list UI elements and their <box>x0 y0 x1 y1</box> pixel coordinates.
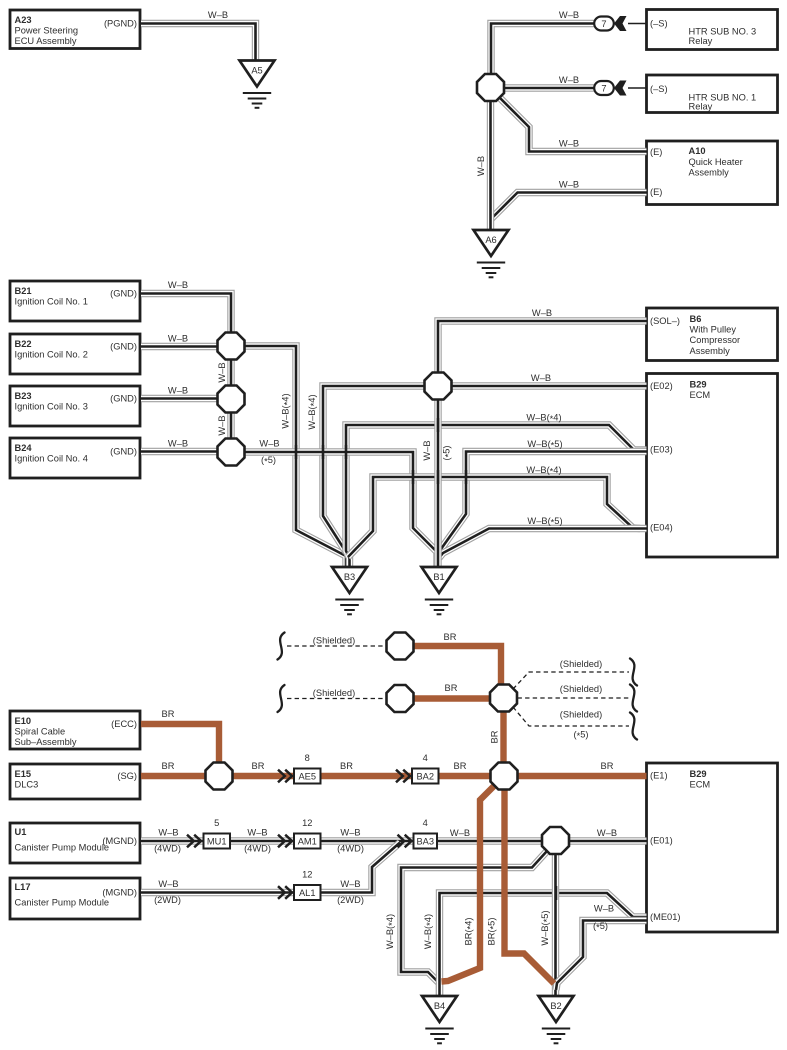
svg-text:AE5: AE5 <box>298 772 316 782</box>
connector 7 to HTR SUB NO.1 <box>594 81 646 96</box>
svg-text:8: 8 <box>305 753 310 763</box>
svg-text:(E01): (E01) <box>650 836 673 846</box>
svg-text:(MGND): (MGND) <box>102 888 137 898</box>
wire W-B from A10 (E) lower to ground A6 stem <box>491 180 647 220</box>
wire BR from connector BA2 to junction H <box>439 761 493 776</box>
svg-text:B3: B3 <box>344 572 355 582</box>
component L17 Canister Pump Module <box>10 878 140 919</box>
svg-text:W–B: W–B <box>247 828 267 838</box>
wire W-B(*4) from junction F to ground B4 <box>385 851 547 997</box>
svg-text:W–B: W–B <box>531 373 551 383</box>
component HTR SUB NO.3 Relay <box>647 10 778 50</box>
wire W-B from U1 (MGND) to connector MU1/AM1/BA3 <box>141 828 414 854</box>
component B6 With Pulley Compressor Assembly <box>647 308 778 361</box>
svg-text:(E02): (E02) <box>650 381 673 391</box>
ground B2 <box>539 996 574 1043</box>
svg-text:(E): (E) <box>650 147 662 157</box>
component B24 Ignition Coil No.4 <box>10 438 140 478</box>
svg-text:W–B: W–B <box>168 386 188 396</box>
component B21 Ignition Coil No.1 <box>10 281 140 321</box>
svg-text:W–B: W–B <box>594 904 614 914</box>
wire W-B from junction A to HTR SUB NO.3 relay <box>491 10 595 75</box>
svg-text:L17: L17 <box>15 882 31 892</box>
connector AE5 pin 8 <box>294 753 321 784</box>
svg-text:BR: BR <box>162 709 175 719</box>
wire W-B from junction E to ECM (E02) <box>450 373 647 386</box>
wire crossing continuity patches <box>296 418 556 900</box>
junction octagon H (BR) <box>491 763 518 790</box>
wire BR from junction G to connector AE5 <box>229 761 294 776</box>
wire BR from connector AE5 to connector BA2 <box>321 761 413 776</box>
ground A6 <box>474 230 509 277</box>
component U1 Canister Pump Module <box>10 823 140 863</box>
svg-text:4: 4 <box>423 753 428 763</box>
svg-text:(SG): (SG) <box>117 771 137 781</box>
svg-text:(GND): (GND) <box>110 394 137 404</box>
svg-text:MU1: MU1 <box>207 837 227 847</box>
connector chevrons BA3 <box>398 835 412 848</box>
junction octagon B <box>218 333 245 360</box>
svg-text:AM1: AM1 <box>298 837 317 847</box>
wire W-B(*4) branch to ECM (E04) and ground B3 <box>348 465 640 557</box>
connector chevrons BA2 <box>396 770 410 783</box>
svg-text:W–B(*​5): W–B(*​5) <box>527 516 562 528</box>
svg-text:(*​5): (*​5) <box>261 455 276 467</box>
svg-text:W–B: W–B <box>559 180 579 190</box>
svg-text:E10: E10 <box>15 716 32 726</box>
svg-text:Spiral Cable: Spiral Cable <box>15 727 66 737</box>
svg-text:A10: A10 <box>689 146 706 156</box>
svg-text:B29: B29 <box>690 380 707 390</box>
svg-text:W–B: W–B <box>217 415 227 435</box>
svg-text:W–B: W–B <box>422 440 432 460</box>
wire W-B(*4) branch to ECM (E03) and ground B3 <box>346 413 647 569</box>
component B29 ECM (middle) <box>647 374 778 558</box>
svg-text:B1: B1 <box>433 572 444 582</box>
svg-text:ECM: ECM <box>690 390 711 400</box>
junction octagon G (E10/E15) <box>206 763 233 790</box>
svg-text:ECU Assembly: ECU Assembly <box>15 36 77 46</box>
svg-text:(E1): (E1) <box>650 771 668 781</box>
svg-text:W–B: W–B <box>559 75 579 85</box>
shielded wire left row 1 <box>287 636 388 647</box>
component HTR SUB NO.1 Relay <box>647 75 778 113</box>
svg-text:W–B: W–B <box>208 10 228 20</box>
svg-text:W–B: W–B <box>532 308 552 318</box>
wire BR(*5) from junction H to ground B2 <box>487 788 554 984</box>
component A23 Power Steering ECU Assembly <box>10 10 140 49</box>
svg-text:W–B(*​4): W–B(*​4) <box>307 394 319 429</box>
wire W-B from connector BA3 to junction F <box>437 828 544 841</box>
svg-text:Ignition Coil No. 4: Ignition Coil No. 4 <box>15 454 88 464</box>
connector AL1 pin 12 <box>294 870 321 901</box>
svg-text:BR: BR <box>444 632 457 642</box>
wire BR from junction H to ECM (E1) <box>516 761 647 776</box>
svg-text:(GND): (GND) <box>110 342 137 352</box>
junction octagon I (shield merge) <box>490 685 517 712</box>
shield pigtail right row C <box>630 713 637 740</box>
wire W-B(*4) from junction E to ground B3 <box>307 386 427 552</box>
svg-text:Relay: Relay <box>689 102 713 112</box>
svg-text:BR: BR <box>454 761 467 771</box>
connector BA2 pin 4 <box>412 753 439 784</box>
wire W-B from B22 (GND) to junction B <box>141 334 220 347</box>
svg-text:12: 12 <box>302 870 312 880</box>
wire W-B from junction A down to ground A6 <box>476 95 490 231</box>
svg-text:7: 7 <box>601 83 606 93</box>
svg-text:B2: B2 <box>550 1001 561 1011</box>
svg-text:(ME01): (ME01) <box>650 912 680 922</box>
svg-text:W–B: W–B <box>158 879 178 889</box>
shielded wire right row B <box>518 684 630 698</box>
svg-text:(*​5): (*​5) <box>442 445 454 460</box>
wire W-B junction C to junction D <box>217 408 231 443</box>
wire BR shielded row 2 to junction I <box>413 683 492 699</box>
svg-text:(*​5): (*​5) <box>573 730 588 742</box>
shield pigtail right row A <box>630 659 637 686</box>
svg-text:AL1: AL1 <box>299 888 316 898</box>
wire BR(*4) from junction H to ground B4 <box>442 785 496 982</box>
shielded wire right row A <box>513 659 629 689</box>
svg-text:(Shielded): (Shielded) <box>560 710 602 720</box>
svg-text:W–B: W–B <box>450 828 470 838</box>
svg-text:Ignition Coil No. 1: Ignition Coil No. 1 <box>15 297 88 307</box>
svg-text:HTR SUB NO. 3: HTR SUB NO. 3 <box>689 27 757 37</box>
wire BR shielded row 1 to junction I <box>413 632 501 687</box>
svg-text:(4WD): (4WD) <box>337 844 364 854</box>
connector chevrons MU1 <box>187 835 201 848</box>
svg-text:E15: E15 <box>15 769 32 779</box>
component A10 Quick Heater Assembly <box>647 141 778 205</box>
svg-text:B21: B21 <box>15 286 32 296</box>
svg-text:BA3: BA3 <box>416 837 434 847</box>
svg-text:(SOL–): (SOL–) <box>650 316 680 326</box>
component E15 DLC3 <box>10 764 140 799</box>
svg-text:7: 7 <box>601 19 606 29</box>
svg-text:BR: BR <box>490 730 500 743</box>
shielded wire right row C (*5) <box>513 707 629 741</box>
wire BR from E15 (SG) to junction G <box>141 761 209 776</box>
svg-text:(2WD): (2WD) <box>337 895 364 905</box>
svg-text:(2WD): (2WD) <box>154 895 181 905</box>
svg-text:(E): (E) <box>650 187 662 197</box>
svg-text:Ignition Coil No. 3: Ignition Coil No. 3 <box>15 402 88 412</box>
svg-text:BR: BR <box>340 761 353 771</box>
wire W-B(*5) from ECM (E03) to ground B1 <box>439 439 647 556</box>
svg-text:W–B(*​4): W–B(*​4) <box>526 465 561 477</box>
svg-text:Relay: Relay <box>689 36 713 46</box>
svg-text:Assembly: Assembly <box>690 346 731 356</box>
svg-text:W–B: W–B <box>340 828 360 838</box>
svg-text:(GND): (GND) <box>110 289 137 299</box>
svg-text:(E03): (E03) <box>650 445 673 455</box>
svg-text:W–B: W–B <box>259 439 279 449</box>
wire W-B from junction A to A10 (E) upper <box>500 98 647 152</box>
junction octagon F (E01 row) <box>542 827 569 854</box>
svg-text:(Shielded): (Shielded) <box>560 659 602 669</box>
svg-text:With Pulley: With Pulley <box>690 325 737 335</box>
connector AM1 pin 12 <box>294 818 321 849</box>
junction octagon D <box>218 439 245 466</box>
svg-text:(Shielded): (Shielded) <box>560 684 602 694</box>
svg-text:BR: BR <box>162 761 175 771</box>
component B29 ECM (bottom) <box>647 763 778 932</box>
svg-text:BR(*​5): BR(*​5) <box>487 918 499 946</box>
svg-text:W–B: W–B <box>340 879 360 889</box>
svg-text:A5: A5 <box>251 66 262 76</box>
svg-text:(Shielded): (Shielded) <box>313 636 355 646</box>
svg-text:W–B(*​4): W–B(*​4) <box>385 914 397 949</box>
junction octagon C <box>218 386 245 413</box>
svg-text:B24: B24 <box>15 443 33 453</box>
wire W-B from L17 (MGND) 2WD to connector BA3 <box>141 843 400 906</box>
svg-text:W–B(*​5): W–B(*​5) <box>540 910 552 945</box>
shield pigtail left row 1 <box>278 633 285 660</box>
svg-text:(GND): (GND) <box>110 447 137 457</box>
svg-text:(Shielded): (Shielded) <box>313 688 355 698</box>
svg-text:Sub–Assembly: Sub–Assembly <box>15 737 77 747</box>
connector chevrons AL1 <box>278 886 292 899</box>
wire W-B from A23 (PGND) to ground A5 <box>141 10 256 61</box>
svg-text:W–B: W–B <box>168 439 188 449</box>
wire W-B from junction E up to B6 (SOL-) <box>438 308 647 375</box>
wire W-B from B21 (GND) to junction B <box>141 280 231 335</box>
svg-text:BR(*​4): BR(*​4) <box>464 918 476 946</box>
wire BR junction I to junction H <box>490 710 504 765</box>
svg-text:(PGND): (PGND) <box>104 19 137 29</box>
svg-text:5: 5 <box>214 818 219 828</box>
wire W-B from B23 (GND) to junction C <box>141 386 220 399</box>
svg-text:(4WD): (4WD) <box>154 844 181 854</box>
svg-text:A6: A6 <box>485 235 496 245</box>
svg-text:W–B: W–B <box>559 139 579 149</box>
svg-text:W–B(*​4): W–B(*​4) <box>423 914 435 949</box>
svg-text:BR: BR <box>252 761 265 771</box>
svg-text:Ignition Coil No. 2: Ignition Coil No. 2 <box>15 350 88 360</box>
svg-text:(E04): (E04) <box>650 523 673 533</box>
svg-text:DLC3: DLC3 <box>15 780 39 790</box>
svg-text:W–B: W–B <box>158 828 178 838</box>
component B22 Ignition Coil No.2 <box>10 334 140 374</box>
svg-text:(ECC): (ECC) <box>111 719 137 729</box>
shield pigtail right row B <box>630 685 637 712</box>
svg-text:Power Steering: Power Steering <box>15 26 79 36</box>
junction octagon shielded row 1 <box>387 633 414 660</box>
svg-text:BR: BR <box>445 683 458 693</box>
svg-text:Canister Pump Module: Canister Pump Module <box>15 843 110 853</box>
svg-text:W–B: W–B <box>217 362 227 382</box>
component E10 Spiral Cable Sub-Assembly <box>10 711 140 749</box>
svg-text:W–B(*​4): W–B(*​4) <box>281 393 293 428</box>
wire BR from E10 (ECC) to junction G <box>141 709 219 766</box>
svg-text:(–S): (–S) <box>650 18 668 28</box>
connector MU1 pin 5 <box>204 818 231 849</box>
ground B3 <box>332 567 367 614</box>
svg-text:U1: U1 <box>15 827 27 837</box>
shielded wire left row 2 <box>287 688 388 699</box>
junction octagon shielded row 2 <box>387 685 414 712</box>
svg-text:W–B: W–B <box>597 828 617 838</box>
svg-text:Canister Pump Module: Canister Pump Module <box>15 898 110 908</box>
svg-text:Compressor: Compressor <box>690 335 741 345</box>
svg-text:Assembly: Assembly <box>689 168 730 178</box>
svg-text:B4: B4 <box>434 1001 445 1011</box>
svg-text:(4WD): (4WD) <box>244 844 271 854</box>
wire W-B(*5) from ECM (E04) to ground B1 <box>439 516 647 558</box>
shield pigtail left row 2 <box>278 685 285 712</box>
svg-text:W–B(*​5): W–B(*​5) <box>527 439 562 451</box>
connector BA3 pin 4 <box>414 818 438 849</box>
svg-text:(MGND): (MGND) <box>102 836 137 846</box>
svg-text:W–B: W–B <box>168 334 188 344</box>
svg-text:12: 12 <box>302 818 312 828</box>
wire W-B junction B to junction C <box>217 355 231 390</box>
wire W-B(*5) from junction F down to ground B2 <box>540 853 555 997</box>
wire W-B (*5) from junction D to ground B1 <box>242 439 437 569</box>
wire W-B (*5) from junction E down to ground B1 <box>422 398 453 568</box>
ground B1 <box>422 567 457 614</box>
wire W-B from junction F to ECM (E01) <box>567 828 647 841</box>
wire W-B(*4) from junction B to ground B3 <box>242 346 346 568</box>
component B23 Ignition Coil No.3 <box>10 386 140 426</box>
svg-text:(*​5): (*​5) <box>593 921 608 933</box>
junction octagon E (middle right) <box>425 373 452 400</box>
svg-text:Quick Heater: Quick Heater <box>689 157 743 167</box>
wire W-B(*4) from ECM (ME01) to ground B4 <box>423 893 646 997</box>
svg-text:B22: B22 <box>15 339 32 349</box>
svg-text:(–S): (–S) <box>650 84 668 94</box>
svg-text:BA2: BA2 <box>416 772 434 782</box>
wire W-B from B24 (GND) to junction D <box>141 439 220 452</box>
connector chevrons AE5 <box>278 770 292 783</box>
svg-text:B29: B29 <box>690 769 707 779</box>
wire W-B (*5) from ECM (ME01) to ground B2 <box>556 904 647 991</box>
svg-text:W–B(*​4): W–B(*​4) <box>526 413 561 425</box>
svg-text:W–B: W–B <box>168 280 188 290</box>
junction octagon A (top) <box>477 74 504 101</box>
svg-text:BR: BR <box>601 761 614 771</box>
svg-text:B6: B6 <box>690 314 702 324</box>
svg-text:W–B: W–B <box>559 10 579 20</box>
svg-text:4: 4 <box>423 818 428 828</box>
svg-text:A23: A23 <box>15 15 32 25</box>
svg-text:W–B: W–B <box>476 156 486 176</box>
ground B4 <box>422 996 457 1043</box>
ground A5 <box>240 61 275 108</box>
connector 7 to HTR SUB NO.3 <box>594 16 646 31</box>
wire W-B from junction A to HTR SUB NO.1 relay <box>504 75 595 88</box>
svg-text:B23: B23 <box>15 391 32 401</box>
connector chevrons AM1 <box>278 835 292 848</box>
svg-text:ECM: ECM <box>690 780 711 790</box>
